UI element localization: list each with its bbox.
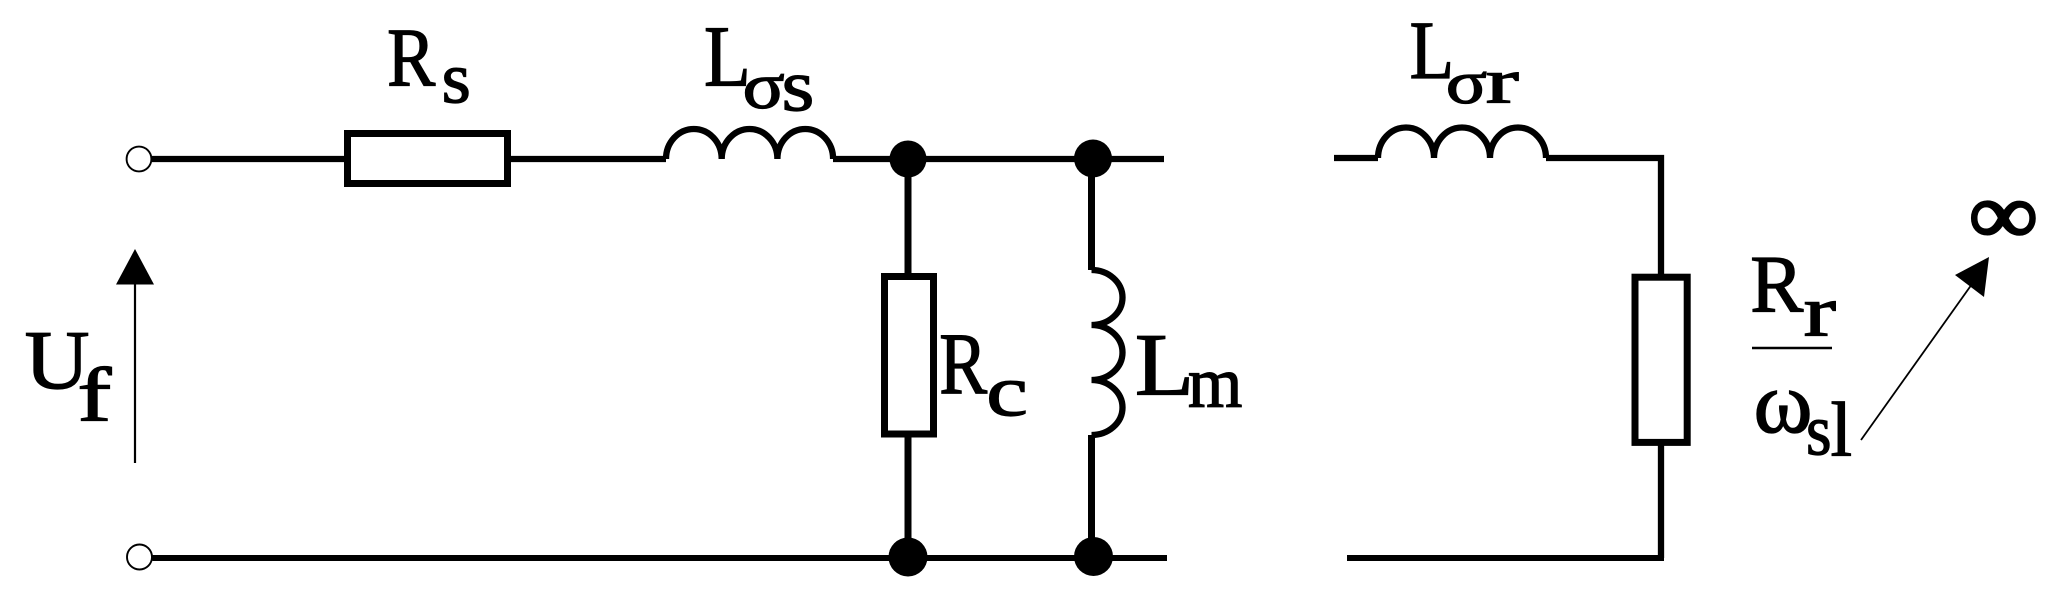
wire coil to corner and down	[1546, 158, 1661, 277]
label Rr numerator	[1750, 240, 1836, 352]
svg-text:R: R	[1750, 240, 1803, 330]
arrow to infinity shaft	[1861, 284, 1972, 440]
svg-text:l: l	[1831, 387, 1852, 473]
svg-text:σ: σ	[1446, 49, 1487, 115]
wire Lm to bottom	[1088, 435, 1095, 558]
label Uf	[25, 313, 112, 438]
svg-text:L: L	[1135, 316, 1194, 414]
svg-text:R: R	[387, 10, 436, 103]
node bottom-left junction	[889, 538, 928, 577]
wire coil to end	[833, 156, 1164, 162]
terminal bottom-left	[127, 545, 152, 570]
label Rs	[387, 10, 471, 118]
svg-text:σ: σ	[743, 49, 785, 122]
wire bottom horizontal	[153, 555, 1168, 561]
arrow Uf shaft	[134, 284, 136, 463]
node top-left junction	[890, 141, 927, 178]
svg-text:ω: ω	[1754, 355, 1813, 452]
label Rc	[939, 316, 1028, 432]
resistor Rr	[1635, 277, 1687, 442]
inductor Lsr	[1378, 127, 1546, 158]
inductor Lm	[1092, 270, 1123, 435]
inductor Lss	[666, 129, 833, 159]
wire top-left horizontal	[152, 156, 347, 162]
svg-text:s: s	[442, 39, 471, 118]
wire top right circuit	[1334, 155, 1378, 161]
node bottom-right junction	[1074, 537, 1113, 576]
wire Rr to bottom	[1658, 440, 1664, 558]
svg-text:R: R	[939, 316, 987, 414]
node top-right junction	[1074, 140, 1112, 178]
arrow to infinity head	[1955, 257, 1989, 297]
label Lss	[704, 8, 814, 127]
arrow Uf head	[116, 249, 154, 285]
wire vertical to Lm	[1088, 159, 1095, 270]
resistor Rc	[885, 277, 934, 435]
fraction bar	[1752, 347, 1832, 349]
terminal top-left	[127, 147, 152, 172]
svg-text:m: m	[1188, 344, 1242, 423]
svg-text:r: r	[1486, 47, 1519, 118]
label Lm	[1135, 316, 1242, 423]
label Lsr	[1410, 4, 1519, 118]
svg-text:f: f	[77, 354, 111, 438]
wire Rs to coil	[511, 156, 666, 162]
label omega sl denominator	[1754, 355, 1853, 473]
svg-text:∞: ∞	[1969, 166, 2038, 262]
svg-text:c: c	[986, 353, 1028, 432]
svg-text:r: r	[1804, 272, 1836, 352]
wire vertical to Rc	[905, 159, 912, 276]
wire Rc to bottom	[905, 434, 912, 558]
wire bottom right circuit	[1347, 555, 1661, 558]
svg-text:s: s	[1806, 391, 1832, 470]
svg-text:s: s	[782, 46, 815, 127]
resistor Rs	[348, 134, 508, 184]
